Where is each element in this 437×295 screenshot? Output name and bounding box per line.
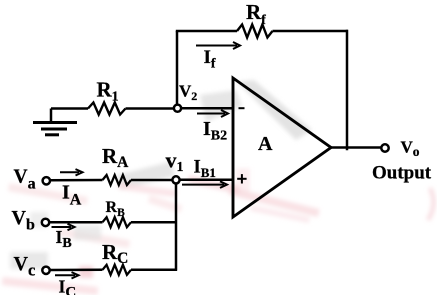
feedback top wire left: [176, 30, 237, 33]
current arrow If: [196, 42, 240, 49]
op-amp plus sign: [237, 174, 246, 183]
ground: [33, 109, 77, 135]
wire Va to RA: [50, 179, 103, 182]
resistor RC: [103, 265, 132, 275]
svg-text:Output: Output: [372, 163, 432, 184]
svg-text:A: A: [258, 133, 273, 155]
current arrow IC: [55, 272, 79, 278]
current arrow IB2: [197, 110, 228, 117]
wire RB to junction: [131, 221, 176, 224]
feedback wire down to output: [346, 30, 349, 151]
current arrow IA: [60, 169, 83, 175]
node V1: [172, 176, 179, 183]
output wire: [331, 146, 381, 149]
junction wire down from V1: [175, 183, 178, 270]
feedback wire up from V2: [176, 31, 179, 105]
input Vc terminal: [42, 267, 49, 274]
wire Vc to RC: [50, 269, 103, 272]
input Vb terminal: [42, 219, 49, 226]
resistor Rf: [237, 25, 273, 38]
output terminal: [381, 144, 388, 151]
wire RC to junction: [131, 269, 177, 272]
feedback top wire right: [273, 30, 349, 33]
wire Vb to RB: [49, 221, 103, 224]
wire V2 to op-amp inverting input: [181, 107, 233, 110]
resistor RB: [103, 217, 132, 227]
wire R1 to node V2: [126, 107, 175, 110]
wire RA to node V1: [131, 179, 173, 182]
current arrow IB: [52, 224, 75, 230]
resistor R1: [88, 103, 126, 115]
resistor RA: [103, 175, 132, 185]
wire ground to R1: [51, 107, 88, 110]
current arrow IB1: [182, 181, 227, 188]
op-amp minus sign: [239, 107, 245, 109]
input Va terminal: [43, 177, 50, 184]
node V2: [174, 105, 181, 112]
op-amp A triangle: [233, 78, 331, 217]
wire V1 to op-amp plus input: [180, 179, 234, 182]
